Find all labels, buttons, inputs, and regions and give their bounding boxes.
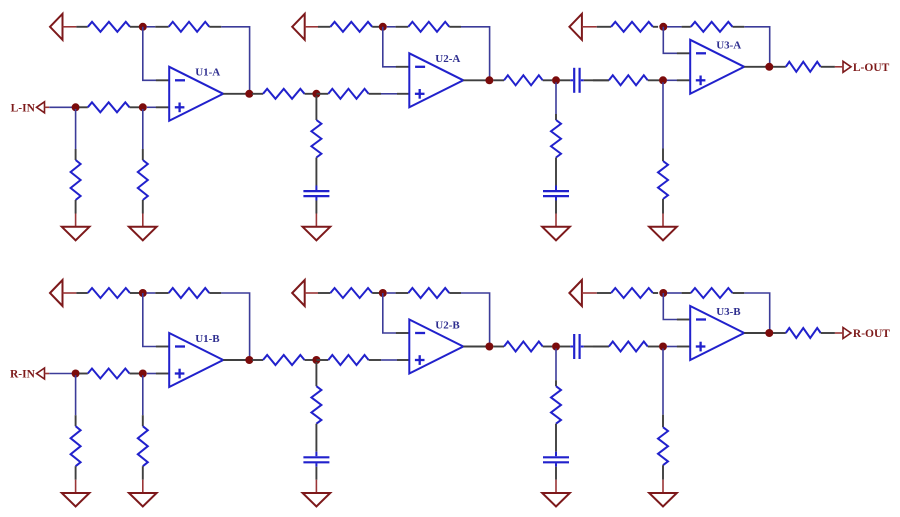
wire R2B to feedback corner [221, 293, 249, 360]
resistor R11A [493, 75, 552, 85]
power port P2B [292, 280, 318, 306]
junction node J6B [379, 289, 387, 297]
junction node J3B [139, 370, 147, 378]
capacitor C3A [560, 68, 593, 93]
wire J1B down to inverting input [143, 293, 156, 347]
ground G2B [129, 480, 157, 507]
resistor R6A [252, 89, 313, 99]
resistor R3B [71, 415, 81, 480]
pin U2A inverting input [396, 66, 409, 68]
wire J9A down [662, 82, 664, 148]
wire C3B to R13B [593, 346, 609, 348]
capacitor C1B [303, 452, 329, 480]
power port P1B [50, 280, 76, 306]
svg-text:U3-B: U3-B [716, 306, 741, 318]
pin U1A inverting input [156, 79, 169, 81]
wire J8B down [555, 349, 557, 381]
resistor R17B [773, 328, 835, 338]
junction node J5B [312, 356, 320, 364]
wire C3A to R13A [593, 79, 609, 81]
pin U1A output [223, 93, 247, 95]
pin U3B inverting input [677, 319, 690, 321]
junction node J2A [72, 103, 80, 111]
op-amp U2-B [409, 319, 463, 373]
junction node J7B [485, 343, 493, 351]
ground G4B [542, 480, 570, 507]
svg-text:U3-A: U3-A [716, 40, 741, 52]
resistor R5A [138, 149, 148, 214]
wire J8A down [555, 82, 557, 114]
op-amp U3-B [690, 306, 744, 360]
resistor R1A [76, 22, 139, 32]
resistor R4A [79, 102, 139, 112]
wire J10B down to inverting input [663, 293, 677, 320]
wire R8A to U2A [381, 93, 397, 95]
svg-text:U1-A: U1-A [195, 67, 220, 79]
resistor R12A [551, 114, 561, 186]
wire R16A to feedback corner [744, 27, 769, 67]
wire J1A to R2A [146, 26, 155, 28]
pin U2B non-inverting input [397, 359, 409, 361]
port L-OUT [835, 61, 890, 74]
resistor R15B [597, 288, 658, 298]
wire L-IN to J2A [49, 106, 73, 108]
port R-IN [10, 368, 49, 381]
ground G2A [129, 214, 157, 241]
capacitor C2B [543, 452, 569, 480]
wire J6A down to inverting input [383, 27, 396, 67]
resistor R7A [311, 120, 321, 186]
resistor R3A [71, 149, 81, 214]
junction node J4A [245, 90, 253, 98]
wire J10B to R16B [667, 292, 682, 294]
ground G3B [303, 480, 331, 507]
svg-text:L-IN: L-IN [11, 102, 36, 114]
resistor R15A [597, 22, 658, 32]
pin U2B inverting input [396, 332, 409, 334]
op-amp U1-B [169, 333, 223, 387]
wire R16B to feedback corner [744, 293, 769, 333]
resistor R2B [155, 288, 221, 298]
pin U3B output [744, 332, 767, 334]
wire R2A to feedback corner [221, 27, 249, 94]
pin U2A output [463, 79, 487, 81]
ground G1B [62, 480, 90, 507]
pin U1B non-inverting input [156, 373, 169, 375]
junction node J10B [659, 289, 667, 297]
resistor R10B [396, 288, 461, 298]
wire J3A to U1A input [147, 106, 156, 108]
wire J6B down to inverting input [383, 293, 396, 333]
wire J1A down to inverting input [143, 27, 156, 81]
junction node J1A [139, 23, 147, 31]
resistor R5B [138, 415, 148, 480]
resistor R7B [311, 386, 321, 452]
port R-OUT [835, 328, 890, 341]
pin U1B inverting input [156, 346, 169, 348]
power port P1A [50, 14, 76, 40]
wire J9B down [662, 349, 664, 415]
pin U1B output [223, 359, 247, 361]
capacitor C1A [303, 186, 329, 214]
wire J3B to U1B input [147, 373, 156, 375]
junction node J5A [312, 90, 320, 98]
wire J3A down [142, 109, 144, 149]
op-amp U3-A [690, 40, 744, 94]
pin U3A output [744, 66, 767, 68]
capacitor C2A [543, 186, 569, 214]
ground G4A [542, 214, 570, 241]
junction node J3A [139, 103, 147, 111]
svg-text:L-OUT: L-OUT [853, 62, 890, 74]
pin U3B non-inverting input [677, 346, 690, 348]
resistor R8A [316, 89, 381, 99]
svg-text:R-IN: R-IN [10, 369, 36, 381]
wire J2A down [75, 109, 77, 149]
resistor R11B [493, 342, 552, 352]
wire R10A to feedback corner [461, 27, 490, 81]
wire J2B down [75, 375, 77, 415]
resistor R9A [318, 22, 379, 32]
wire J6A to R10A [387, 26, 396, 28]
junction node J4B [245, 356, 253, 364]
port L-IN [11, 102, 50, 115]
op-amp U2-A [409, 53, 463, 107]
wire J5A down [315, 96, 317, 120]
power port P2A [292, 14, 318, 40]
pin U3A non-inverting input [677, 79, 690, 81]
wire R8B to U2B [381, 359, 397, 361]
resistor R10A [396, 22, 461, 32]
junction node J2B [72, 370, 80, 378]
resistor R13B [593, 342, 659, 352]
ground G5A [649, 214, 677, 241]
wire J5B down [315, 362, 317, 386]
resistor R8B [316, 355, 381, 365]
resistor R17A [773, 62, 835, 72]
wire R10B to feedback corner [461, 293, 490, 347]
ground G5B [649, 480, 677, 507]
pin U3A inverting input [677, 52, 690, 54]
wire J10A down to inverting input [663, 27, 677, 54]
resistor R9B [318, 288, 379, 298]
resistor R1B [76, 288, 139, 298]
capacitor C3B [560, 334, 593, 359]
resistor R13A [593, 75, 659, 85]
junction node J11B [765, 329, 773, 337]
power port P3A [569, 14, 596, 40]
junction node J6A [379, 23, 387, 31]
pin U2B output [463, 346, 487, 348]
svg-text:U1-B: U1-B [195, 333, 220, 345]
junction node J9A [659, 76, 667, 84]
junction node J8A [552, 76, 560, 84]
resistor R16A [682, 22, 745, 32]
resistor R16B [682, 288, 745, 298]
resistor R6B [252, 355, 313, 365]
svg-text:R-OUT: R-OUT [853, 328, 890, 340]
wire J3B down [142, 375, 144, 415]
pin U2A non-inverting input [397, 93, 409, 95]
junction node J9B [659, 343, 667, 351]
wire J9B to U3B input [667, 346, 677, 348]
wire J1B to R2B [146, 292, 155, 294]
ground G1A [62, 214, 90, 241]
junction node J10A [659, 23, 667, 31]
junction node J7A [485, 76, 493, 84]
junction node J8B [552, 343, 560, 351]
power port P3B [569, 280, 596, 306]
resistor R12B [551, 380, 561, 452]
wire R-IN to J2B [49, 373, 73, 375]
resistor R2A [155, 22, 221, 32]
pin U1A non-inverting input [156, 106, 169, 108]
junction node J11A [765, 63, 773, 71]
op-amp U1-A [169, 67, 223, 121]
wire J6B to R10B [387, 292, 396, 294]
wire J10A to R16A [667, 26, 682, 28]
resistor R4B [79, 369, 139, 379]
resistor R14A [658, 149, 668, 214]
svg-text:U2-A: U2-A [435, 53, 460, 65]
resistor R14B [658, 415, 668, 480]
svg-text:U2-B: U2-B [435, 319, 460, 331]
wire J9A to U3A input [667, 79, 677, 81]
junction node J1B [139, 289, 147, 297]
ground G3A [303, 214, 331, 241]
